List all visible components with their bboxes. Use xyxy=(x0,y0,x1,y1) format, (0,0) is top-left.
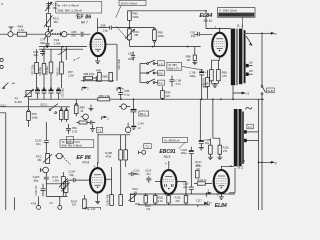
wire below switch xyxy=(261,95,263,100)
electrolytic C98 xyxy=(201,70,203,72)
rating box Tr 265V xyxy=(218,8,256,18)
resistor R95 xyxy=(207,70,209,78)
main bus y=99.2 xyxy=(29,98,265,100)
svg-text:Tr. 2: Tr. 2 xyxy=(237,24,244,28)
resistor R49 xyxy=(17,32,26,36)
junction dots on rails xyxy=(46,46,48,48)
tag box 1.2 xyxy=(247,124,254,129)
wiper circle P2/2 xyxy=(57,153,63,159)
arrow 3 xyxy=(206,192,211,197)
svg-text:R95 1k5: R95 1k5 xyxy=(202,77,205,87)
EF86 Rö8 internals: heater dot xyxy=(97,187,98,188)
resistor R77 column xyxy=(36,49,38,62)
svg-text:7.2: 7.2 xyxy=(145,145,149,149)
resistor R128 xyxy=(218,145,222,154)
connector circle right xyxy=(121,104,126,109)
svg-text:220k: 220k xyxy=(158,34,165,38)
capacitor C112 xyxy=(128,172,136,176)
capacitor C95 xyxy=(90,121,95,125)
EBC91 pin stubs xyxy=(166,193,172,196)
svg-text:150k: 150k xyxy=(135,203,141,206)
connector circle above EBC xyxy=(125,127,131,133)
speaker feed line down xyxy=(261,33,263,85)
S-curl fuse symbol xyxy=(245,107,252,109)
potentiometer P4/2 xyxy=(61,177,65,189)
svg-text:16n: 16n xyxy=(146,172,151,176)
EL84 internals: heater dot xyxy=(219,50,220,51)
EBC91 internals: diode plates xyxy=(165,184,173,187)
diode D1 xyxy=(204,202,207,205)
EF86 Rö8 internals: grids dashed xyxy=(92,178,103,183)
left border wire xyxy=(0,113,6,210)
EL84-2 right side wire xyxy=(229,168,235,193)
callout line from box xyxy=(76,13,79,17)
tone switch row 2 xyxy=(140,72,147,74)
svg-text:3+3M: 3+3M xyxy=(15,100,23,104)
junction dot output line xyxy=(261,33,263,35)
B+ rail y=10.8 xyxy=(129,10,206,12)
svg-text:x: x xyxy=(274,32,277,36)
wire screen feed EL84-2 right xyxy=(210,99,219,145)
measurement tag box Ta 14V xyxy=(85,207,101,212)
resistor R90 with terminal circles xyxy=(154,28,156,30)
svg-text:Bd.4: Bd.4 xyxy=(140,112,146,116)
wiper arrow P2/1 xyxy=(44,30,52,39)
trimmer capacitor C75 xyxy=(46,2,50,13)
wire anode top row to transformer xyxy=(206,28,231,30)
EF86 anode wire up xyxy=(97,18,99,33)
EF86 internals: cathode xyxy=(95,48,101,50)
capacitor C97 xyxy=(194,32,213,36)
wire P2/1 to wiper node xyxy=(47,27,49,32)
EF86 Rö8 internals: cathode xyxy=(95,184,101,186)
wires into cluster xyxy=(84,76,97,81)
svg-text:Rö8: 98V 0.46mA: Rö8: 98V 0.46mA xyxy=(62,144,83,148)
svg-text:270: 270 xyxy=(223,150,228,153)
svg-text:2M: 2M xyxy=(134,33,139,37)
svg-text:0.33: 0.33 xyxy=(72,129,78,133)
ground symbol EL84 cathode xyxy=(212,85,217,88)
svg-text:3M: 3M xyxy=(54,20,59,24)
feedback rail upper y=46.6 xyxy=(39,46,201,48)
potentiometer P1/2 xyxy=(64,181,68,192)
switch S1/B lever xyxy=(262,87,265,93)
tone switch row 3 xyxy=(140,82,147,84)
electrolytic row C77 xyxy=(37,88,39,90)
svg-text:K.b: K.b xyxy=(158,81,163,85)
svg-text:16.5V 0.8mA: 16.5V 0.8mA xyxy=(120,1,137,5)
svg-text:1.2: 1.2 xyxy=(248,125,252,129)
wiper circle P2/1 xyxy=(45,32,50,37)
electrolytic C83 xyxy=(50,88,52,90)
svg-text:2.2M: 2.2M xyxy=(68,73,74,77)
svg-text:68p: 68p xyxy=(34,179,39,183)
EL84-2 cathode ground xyxy=(219,193,224,199)
svg-text:0.1µ: 0.1µ xyxy=(124,92,130,96)
wire cluster bottom rail y=80.8 xyxy=(81,80,114,82)
svg-text:68p: 68p xyxy=(40,41,45,45)
output arrow y xyxy=(259,161,275,163)
EL84-2 internals: cathode xyxy=(218,185,224,187)
EF86 internals: grids dashed xyxy=(92,42,103,47)
output transformer 2 primary winding xyxy=(234,109,238,166)
svg-text:50p: 50p xyxy=(69,173,74,177)
callout diagonal from 16.5V box xyxy=(116,6,121,18)
svg-text:14p: 14p xyxy=(103,28,108,32)
svg-text:C 94: C 94 xyxy=(138,121,144,125)
capacitor C79 xyxy=(40,49,45,56)
tone network arrow xyxy=(58,49,67,55)
junction dots lower bus xyxy=(145,193,147,195)
resistor R112 xyxy=(144,195,148,203)
bottom bus y=204.9 xyxy=(138,204,210,206)
svg-text:220k: 220k xyxy=(132,15,139,19)
EF86 Rö8 cathode wire and ground xyxy=(97,193,99,201)
svg-text:C93: C93 xyxy=(128,51,133,55)
svg-text:1M: 1M xyxy=(196,164,199,167)
capacitor C104 xyxy=(67,178,90,182)
jack symbol EBC input xyxy=(139,151,142,155)
svg-text:d.: d. xyxy=(1,2,4,6)
secondary bus y=106.8 xyxy=(0,106,70,108)
resistor R83 in series xyxy=(98,98,110,101)
electrolytic C82 xyxy=(43,88,45,90)
svg-text:R80 1M: R80 1M xyxy=(57,68,60,76)
EBC91 anode side wire xyxy=(176,182,186,194)
ground symbol EF86 cathode xyxy=(95,61,100,64)
tag box Bd.4 xyxy=(139,111,149,116)
junction dot xyxy=(48,29,50,31)
winding tap 1W xyxy=(246,64,249,67)
svg-text:270: 270 xyxy=(222,74,227,78)
svg-text:Ta: 14V: Ta: 14V xyxy=(87,207,96,210)
svg-text:4.7k: 4.7k xyxy=(18,28,24,32)
tag box 7.2 mid xyxy=(96,127,102,132)
wiper circle P1/1 xyxy=(62,32,67,37)
measurement box Ta 110V xyxy=(60,140,94,148)
resistor R115 xyxy=(184,195,188,203)
feedback rail lower y=49.2 xyxy=(39,48,83,50)
svg-text:15n: 15n xyxy=(36,142,41,146)
transformer 2 tertiary winding xyxy=(242,112,244,165)
svg-text:R78 56k: R78 56k xyxy=(39,66,42,76)
ground symbol R98 xyxy=(192,62,197,65)
svg-text:Rö8 4.7V: Rö8 4.7V xyxy=(168,66,179,70)
output arrow line to x xyxy=(246,32,274,34)
label box measurements Ia/Rö xyxy=(56,2,102,13)
arrow +2 mid xyxy=(82,87,86,91)
pentode EL84 second envelope xyxy=(214,170,229,193)
svg-text:S1C/1: S1C/1 xyxy=(40,102,48,106)
svg-text:33: 33 xyxy=(80,109,84,113)
capacitor C86 xyxy=(170,76,175,87)
svg-text:Ta: 98V: Ta: 98V xyxy=(168,63,177,67)
resistor R80 column xyxy=(61,47,63,62)
EL84-2 internals: anode bar xyxy=(218,175,225,177)
capacitor to ground with tag xyxy=(90,125,95,132)
switch S1/B contacts xyxy=(261,86,263,88)
svg-text:4.7n: 4.7n xyxy=(175,82,181,86)
junction dot anode xyxy=(219,28,221,30)
resistor R76 xyxy=(28,110,30,112)
svg-text:Ta: 110V 2.4mA: Ta: 110V 2.4mA xyxy=(62,140,81,144)
wires left of switch rows xyxy=(139,64,141,83)
svg-text:Rö 9: Rö 9 xyxy=(164,155,171,159)
transformer 2 core lamination xyxy=(237,109,239,166)
potentiometer P3/1 xyxy=(128,29,132,40)
svg-text:7.2: 7.2 xyxy=(97,128,101,132)
output transformer 2 secondary winding xyxy=(239,109,242,166)
EBC91 internals: grid dashed xyxy=(163,179,174,181)
EBC91 anode wire up xyxy=(168,161,170,170)
svg-text:EL84: EL84 xyxy=(215,203,227,209)
output arrow bottom-left xyxy=(2,83,8,89)
wire Tr box to transformer xyxy=(242,17,244,28)
resistor R78 column xyxy=(43,47,45,64)
arrow 2 xyxy=(102,116,107,120)
potentiometer P2/1 xyxy=(46,14,50,27)
junction dot C98 xyxy=(201,69,203,71)
svg-text:220: 220 xyxy=(165,94,170,98)
dashed gang link P2/2 xyxy=(62,157,70,165)
resistor R109 xyxy=(124,150,128,160)
EL84 cathode wire down xyxy=(211,57,219,70)
svg-text:740: 740 xyxy=(146,208,151,210)
capacitor C105 xyxy=(41,184,46,197)
tick bar before P1/1 wiper xyxy=(60,32,62,37)
grid wire into EBC91 xyxy=(155,181,161,183)
electrolytic C84 xyxy=(58,88,60,90)
capacitor C103 xyxy=(44,173,49,184)
wire anode row y=27.6 xyxy=(98,27,155,29)
svg-text:15p: 15p xyxy=(191,34,196,38)
resistor R110 xyxy=(119,195,123,206)
svg-text:400p: 400p xyxy=(128,57,134,61)
tick mark xyxy=(12,82,15,84)
EBC91 internals: anode bar xyxy=(165,176,172,178)
pot P1 box xyxy=(26,91,31,97)
resistor R85 xyxy=(60,109,62,111)
electrolytic C118 xyxy=(190,147,192,151)
svg-text:2W: 2W xyxy=(249,70,253,73)
svg-text:Rö 8: Rö 8 xyxy=(82,161,89,165)
antenna/pickup symbol top of input jack xyxy=(9,27,14,31)
EF86 internals: anode bar xyxy=(94,38,101,40)
svg-text:Tr. 2: Tr. 2 xyxy=(237,166,243,170)
capacitor C76 hanging from wiper xyxy=(46,37,50,48)
grounds R126 R128 xyxy=(208,154,213,160)
svg-text:100k: 100k xyxy=(32,115,39,119)
primary bottom wire down to bus xyxy=(232,85,234,99)
output terminals bottom-left xyxy=(37,205,41,209)
capacitor C88 xyxy=(110,26,112,30)
EF86 Rö8 internals: anode bar xyxy=(94,174,101,176)
svg-text:Ta: 98V/4mA: Ta: 98V/4mA xyxy=(164,138,180,142)
svg-text:C105 13n: C105 13n xyxy=(35,185,38,196)
pentode EL84 Rö10 envelope xyxy=(212,33,227,57)
svg-text:Rö 7: Rö 7 xyxy=(81,20,88,24)
svg-text:1.3M: 1.3M xyxy=(54,41,61,45)
capacitor C80 coupling xyxy=(81,32,83,37)
capacitor C92 xyxy=(133,99,135,109)
capacitor C102 xyxy=(44,122,49,154)
Tr.2 secondary winding xyxy=(239,29,243,85)
electrolytic C107 xyxy=(199,140,204,142)
Tr.2 core laminations xyxy=(237,29,238,86)
svg-text:Rö 10: Rö 10 xyxy=(204,19,213,23)
svg-text:450p: 450p xyxy=(134,172,140,176)
svg-text:NPN 295V 33mA: NPN 295V 33mA xyxy=(219,13,240,17)
tick and jack before P1/2 xyxy=(40,168,42,172)
tag box L.b xyxy=(158,61,165,66)
lower bus y=194 xyxy=(130,193,235,195)
tag box K.b xyxy=(158,80,165,85)
svg-text:Tr: 265V 52mA: Tr: 265V 52mA xyxy=(219,9,237,13)
svg-text:680k: 680k xyxy=(102,75,108,78)
svg-text:47k: 47k xyxy=(175,199,180,203)
measurement box Ta 98V/4mA xyxy=(163,137,188,142)
EL84 internals: grids dashed xyxy=(214,41,225,46)
svg-text:50µ: 50µ xyxy=(205,142,210,145)
svg-text:470k: 470k xyxy=(31,203,37,206)
svg-text:100µ: 100µ xyxy=(181,151,187,155)
svg-text:Ia: +4V, 0.46mA: Ia: +4V, 0.46mA xyxy=(58,3,79,7)
svg-text:L.b: L.b xyxy=(159,62,163,66)
wire screen feed EL84-2 left xyxy=(199,99,201,140)
svg-text:R122 1k: R122 1k xyxy=(197,179,207,182)
EL84 internals: anode bar xyxy=(216,38,223,40)
svg-text:R83 3.6k: R83 3.6k xyxy=(99,94,111,98)
svg-text:470k: 470k xyxy=(105,154,111,158)
wire x=66.3 vertical xyxy=(65,47,67,60)
resistor R91 xyxy=(109,73,113,82)
tone switch row 1 xyxy=(140,63,147,65)
capacitor C96 grounded top xyxy=(133,124,135,127)
svg-text:C88: C88 xyxy=(100,24,106,28)
dashed gang link P2/1 to P1/1 xyxy=(52,33,61,35)
ground symbol C107 xyxy=(199,148,204,151)
wires cathode parts to ground xyxy=(211,81,218,85)
callout diagonal to C88 node xyxy=(116,26,129,42)
svg-text:C117: C117 xyxy=(196,199,202,202)
arrow +5 mid xyxy=(117,87,121,91)
resistor R101 xyxy=(79,121,87,124)
tap selector arrow xyxy=(246,36,252,45)
tag box M.b xyxy=(158,71,165,76)
capacitor C117 bottom left of EL84 xyxy=(197,205,199,207)
capacitor C99 cathode bypass xyxy=(210,70,214,81)
resistor R84 xyxy=(75,103,77,105)
resistor R92 xyxy=(128,11,132,21)
feedback stub arrow +2 xyxy=(233,92,245,94)
svg-text:2.2k: 2.2k xyxy=(158,199,164,203)
svg-text:22n: 22n xyxy=(183,186,188,189)
transformer 2 tap 2 xyxy=(244,139,247,142)
svg-text:1.3M: 1.3M xyxy=(52,179,59,183)
svg-text:100µ: 100µ xyxy=(189,74,196,78)
wire R82 column xyxy=(105,44,117,81)
potentiometer P2/2 xyxy=(46,154,50,164)
svg-text:y: y xyxy=(274,161,277,165)
wire frame around R108 network xyxy=(98,134,130,164)
wire screen drop from B+ rail xyxy=(205,11,207,29)
resistor R79 column xyxy=(50,49,52,62)
EL84-2 internals: heater dot xyxy=(221,187,222,188)
tag box S1/B xyxy=(267,88,275,93)
speaker line right x=262 xyxy=(261,99,263,210)
capacitor C85 xyxy=(118,89,123,100)
transformer 2 tap 1 xyxy=(244,130,247,133)
EF86 Rö8 anode wire up xyxy=(97,162,99,168)
resistor R126 xyxy=(209,145,213,154)
input jack J1 xyxy=(8,32,13,37)
svg-text:R77 220k: R77 220k xyxy=(31,64,34,75)
resistor R99 cathode xyxy=(217,70,221,81)
speaker line left x=258.5 xyxy=(258,99,260,210)
output transformer Tr.2 primary winding xyxy=(231,29,235,86)
wire rails bottom-left xyxy=(46,184,67,197)
EL84-2 anode wire xyxy=(221,166,234,170)
capacitor C114 xyxy=(146,176,151,183)
svg-text:R106 470k: R106 470k xyxy=(107,194,110,206)
junction dot on B+ rail xyxy=(205,10,207,12)
duo-diode-triode EBC91 envelope xyxy=(161,170,176,194)
EL84 anode wire xyxy=(219,29,221,33)
svg-text:R88 470k: R88 470k xyxy=(84,73,95,76)
callout line from Ta box xyxy=(182,66,202,69)
svg-text:22n: 22n xyxy=(71,34,76,38)
electrolytic C81 xyxy=(37,88,39,90)
resistor R111 xyxy=(154,195,158,203)
svg-text:S1/B: S1/B xyxy=(267,89,273,93)
svg-text:C91 50µ: C91 50µ xyxy=(62,88,65,98)
svg-text:Rö9: 98V, 0.29mA: Rö9: 98V, 0.29mA xyxy=(58,8,82,12)
capacitor C93 at switch left xyxy=(131,52,135,61)
wire: main input line y=34.2 left section xyxy=(0,33,90,35)
label box 16.5V xyxy=(119,0,146,5)
jack symbol mid xyxy=(83,114,89,120)
EF86 internals: heater dot xyxy=(97,50,98,51)
svg-text:30p: 30p xyxy=(33,53,38,57)
Tr.2 tertiary winding xyxy=(244,30,246,83)
capacitor C87 top of lower channel xyxy=(66,124,71,134)
EBC91 internals: heater dot xyxy=(168,188,169,189)
junction dots on main bus xyxy=(120,98,122,100)
EL84-2 internals: grids dashed xyxy=(216,179,227,184)
wire stub near border xyxy=(14,198,16,211)
resistor R114 xyxy=(167,195,171,203)
svg-text:R82 220k: R82 220k xyxy=(118,58,121,69)
winding tap 2W xyxy=(246,73,249,76)
svg-text:+2: +2 xyxy=(246,92,250,96)
resistor R106 xyxy=(110,195,114,206)
EL84 internals: cathode xyxy=(217,48,223,50)
callout from Ta box xyxy=(179,142,185,148)
svg-text:R79 8k2: R79 8k2 xyxy=(46,65,49,75)
svg-text:1W: 1W xyxy=(249,61,253,64)
pentode EF86 Rö7 envelope xyxy=(91,33,106,56)
EF86 Rö8 right pin stub xyxy=(105,178,111,180)
resistor R94 xyxy=(161,91,165,99)
svg-text:2: 2 xyxy=(106,117,109,121)
wire C118 down to bus xyxy=(189,157,194,194)
ground symbol mid xyxy=(89,105,94,111)
EF86 cathode wire xyxy=(97,56,99,60)
tag box 7.2 left xyxy=(66,136,73,143)
pentode EF86 Rö8 envelope xyxy=(90,168,105,192)
svg-text:3M: 3M xyxy=(37,158,42,162)
resistor R86 xyxy=(65,109,67,111)
